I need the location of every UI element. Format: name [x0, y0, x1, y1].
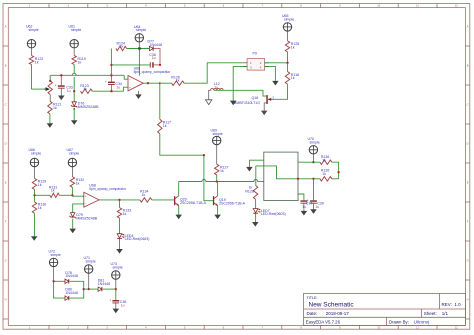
- wire R121 to ground: [49, 114, 51, 123]
- ground chevron under L12: [206, 100, 212, 105]
- svg-text:1k: 1k: [176, 79, 180, 83]
- transistor Q18 JFET: [233, 95, 274, 105]
- inductor L12: [211, 82, 223, 90]
- wire JFET source to ground: [264, 103, 266, 111]
- svg-text:8: 8: [300, 4, 302, 8]
- wire C39 to ground: [313, 203, 315, 209]
- wire R135 leads: [314, 178, 339, 180]
- title block text New Schematic: [309, 302, 355, 309]
- wire minus input drop: [124, 75, 128, 79]
- svg-text:1k: 1k: [35, 60, 39, 64]
- ground under C37: [301, 211, 308, 216]
- svg-text:simple: simple: [310, 140, 320, 144]
- transistor Q20: [174, 196, 207, 206]
- resistor R121: [48, 101, 62, 114]
- svg-text:−: −: [129, 78, 131, 82]
- svg-text:simple: simple: [113, 266, 123, 270]
- ground under C38: [113, 309, 120, 314]
- svg-text:simple: simple: [31, 151, 41, 155]
- svg-text:12: 12: [455, 4, 458, 8]
- node R131 left: [33, 194, 35, 196]
- wire R117 to Q19 node: [160, 134, 204, 156]
- svg-text:simple: simple: [69, 151, 79, 155]
- diode D78: [65, 271, 78, 284]
- wire C38 to ground: [115, 303, 117, 309]
- wire feedback rail to C36: [111, 64, 150, 66]
- svg-text:E: E: [467, 181, 469, 185]
- connector P9: [243, 52, 269, 71]
- wire R134 to Q20 base: [152, 199, 174, 201]
- svg-text:H: H: [5, 298, 7, 302]
- resistor R135: [320, 169, 332, 181]
- svg-text:R128: R128: [245, 189, 254, 193]
- resistor R133: [117, 208, 131, 218]
- svg-text:1k: 1k: [51, 189, 55, 193]
- wire C33 lead: [60, 75, 62, 85]
- svg-text:Drawn By:: Drawn By:: [389, 319, 409, 324]
- wire R119 to D76: [73, 91, 75, 102]
- diode D80: [65, 288, 78, 301]
- svg-text:TITLE:: TITLE:: [307, 296, 318, 300]
- svg-text:2SC2056-T1B-A: 2SC2056-T1B-A: [219, 202, 246, 206]
- svg-text:1k: 1k: [83, 87, 87, 91]
- svg-text:Date:: Date:: [307, 311, 318, 316]
- svg-text:simple: simple: [29, 28, 39, 32]
- resistor R118: [285, 72, 299, 85]
- voltage source U69: [211, 128, 223, 144]
- svg-text:MMSZ5248B: MMSZ5248B: [78, 105, 99, 109]
- svg-text:D: D: [5, 142, 7, 146]
- resistor R119: [72, 56, 86, 65]
- wire R128 to LED7: [255, 199, 257, 208]
- node R131 right: [71, 194, 73, 196]
- diode D77: [148, 40, 162, 51]
- wire ground spur left of module: [249, 160, 263, 167]
- wire L12 to JFET drain: [214, 90, 267, 96]
- wire D77 to C36: [154, 49, 160, 65]
- svg-text:UItronvj: UItronvj: [414, 319, 429, 324]
- ground under C33: [58, 96, 65, 101]
- node U71 junction: [88, 288, 90, 290]
- wire L12 left to ground: [209, 90, 211, 100]
- svg-text:simple: simple: [213, 132, 223, 136]
- svg-text:1: 1: [29, 4, 31, 8]
- wire R126 to P9 pin1: [184, 63, 243, 83]
- svg-text:1N4448: 1N4448: [65, 291, 77, 295]
- led LED4: [117, 234, 149, 242]
- svg-text:MMSZ5248B: MMSZ5248B: [76, 217, 97, 221]
- node C34 top on rail: [110, 74, 112, 76]
- node U64 junction: [138, 47, 140, 49]
- diode D81: [98, 279, 110, 292]
- ground under Q20: [175, 215, 182, 220]
- wire R135 node to C39: [313, 179, 315, 201]
- svg-text:simple: simple: [284, 17, 294, 21]
- wire R136 right: [332, 162, 339, 179]
- wire U67 to R119: [73, 48, 75, 56]
- resistor R127: [215, 164, 229, 175]
- svg-text:1N4448: 1N4448: [65, 274, 77, 278]
- svg-text:1k: 1k: [291, 46, 295, 50]
- ground under U66: [135, 94, 142, 99]
- wire Q20 collector: [178, 182, 180, 196]
- svg-text:1k: 1k: [142, 193, 146, 197]
- title block text REV 1.0: [442, 302, 462, 307]
- title block text Drawn By: [389, 319, 429, 324]
- wire R122 down: [31, 65, 33, 90]
- svg-text:P9: P9: [253, 52, 257, 56]
- svg-text:1k: 1k: [38, 183, 42, 187]
- resistor R125: [285, 41, 299, 52]
- capacitor C37: [297, 199, 312, 210]
- voltage source U66b: [29, 148, 42, 167]
- svg-text:simple: simple: [71, 28, 81, 32]
- ground under LED7: [252, 222, 258, 227]
- svg-text:1k: 1k: [38, 206, 42, 210]
- title block box: [304, 294, 466, 326]
- wire Q19 collector: [216, 182, 219, 196]
- wire R133 to LED4: [119, 218, 121, 234]
- svg-text:+: +: [85, 194, 87, 198]
- wire pot to R121: [49, 95, 51, 102]
- wire node to R133: [119, 200, 121, 208]
- svg-text:New Schematic: New Schematic: [309, 302, 355, 309]
- ground under R130: [31, 236, 38, 241]
- svg-text:3: 3: [106, 4, 108, 8]
- ground under C39: [310, 209, 317, 214]
- node R123 left junction: [73, 90, 75, 92]
- ground left of module: [246, 167, 253, 172]
- resistor R134: [140, 190, 152, 202]
- svg-text:B: B: [467, 64, 469, 68]
- svg-text:LED-Red(0603): LED-Red(0603): [261, 212, 286, 216]
- led LED7: [253, 209, 285, 217]
- wire R123 to opamp plus input: [92, 87, 128, 91]
- wire R132 to node: [71, 187, 73, 195]
- resistor R136: [320, 155, 332, 164]
- voltage source U67: [69, 25, 82, 48]
- node mid junction: [203, 154, 205, 156]
- svg-text:4: 4: [145, 4, 147, 8]
- svg-text:+: +: [297, 199, 299, 203]
- wire node to C38: [115, 289, 117, 300]
- svg-text:2SC2056-T1B-A: 2SC2056-T1B-A: [180, 201, 207, 205]
- svg-text:1N4448: 1N4448: [150, 43, 162, 47]
- node rail R127: [216, 180, 218, 182]
- wire inner route to R135: [256, 166, 314, 179]
- svg-text:G: G: [467, 259, 469, 263]
- svg-text:MMBFJ310LT1G: MMBFJ310LT1G: [233, 101, 260, 105]
- svg-text:1k: 1k: [291, 76, 295, 80]
- voltage source U62: [26, 25, 39, 48]
- node feedback mid: [110, 64, 112, 66]
- wire U68 minus input to D79: [73, 204, 84, 213]
- wire diode loop: [54, 281, 84, 298]
- wire LED7 to ground: [255, 214, 257, 223]
- resistor R130: [32, 202, 46, 213]
- wire U66b to R129: [34, 167, 36, 179]
- svg-text:5: 5: [184, 4, 186, 8]
- op-amp U68: [84, 183, 127, 207]
- svg-text:Q18: Q18: [252, 96, 259, 100]
- zener diode D76: [71, 102, 99, 109]
- resistor R124: [116, 41, 127, 50]
- potentiometer wiper arrow: [44, 87, 49, 91]
- svg-text:2: 2: [68, 4, 70, 8]
- potentiometer R120 element: [48, 81, 52, 95]
- node right vertical: [337, 171, 339, 173]
- svg-text:C: C: [5, 103, 7, 107]
- wire R130 to ground: [34, 213, 36, 236]
- wire to pot wiper: [32, 88, 45, 90]
- capacitor C38: [109, 298, 126, 307]
- wire U73 down: [115, 279, 117, 289]
- svg-text:1k: 1k: [76, 181, 80, 185]
- node pot top: [49, 80, 51, 82]
- svg-text:REV: 1.0: REV: 1.0: [442, 302, 462, 307]
- svg-text:3: 3: [272, 95, 274, 99]
- svg-text:1u: 1u: [116, 86, 120, 90]
- resistor R131: [49, 185, 59, 197]
- node loop right mid: [83, 288, 85, 290]
- wire U66 output: [143, 82, 171, 84]
- svg-text:F: F: [5, 220, 7, 224]
- svg-text:F: F: [467, 220, 469, 224]
- wire pot top stub: [49, 75, 51, 81]
- svg-text:1u: 1u: [315, 205, 319, 209]
- svg-text:G: G: [5, 259, 7, 263]
- svg-text:1N4448: 1N4448: [98, 282, 110, 286]
- svg-text:1k: 1k: [120, 45, 124, 49]
- node below D76: [73, 108, 75, 110]
- wire R125 to node: [287, 52, 289, 63]
- node diode loop left: [52, 280, 54, 282]
- svg-text:2018-09-17: 2018-09-17: [326, 311, 350, 316]
- node C33 junction: [60, 74, 62, 76]
- capacitor C34: [105, 80, 122, 90]
- wire Q19 emitter to ground: [217, 205, 219, 214]
- svg-text:simple: simple: [51, 253, 61, 257]
- wire P9 pin4 to ground: [265, 66, 276, 81]
- title block text TITLE: [307, 296, 318, 300]
- zener diode D79: [70, 213, 98, 221]
- wire R131 leads: [35, 194, 73, 196]
- wire U62 to R122: [31, 48, 33, 56]
- svg-text:E: E: [5, 181, 7, 185]
- svg-text:1u: 1u: [215, 85, 219, 89]
- wiring rectangle module: [264, 152, 298, 200]
- svg-text:6: 6: [223, 4, 225, 8]
- voltage source U64: [134, 25, 146, 42]
- ground under Q19: [214, 215, 221, 220]
- wire R119 down crossing rail: [73, 65, 75, 92]
- svg-text:simple: simple: [86, 260, 96, 264]
- wire P9 pin3 to ground: [233, 66, 247, 100]
- node U70 junction: [312, 161, 314, 163]
- ground under LED4: [116, 249, 123, 254]
- capacitor C33: [55, 84, 73, 93]
- wire R128 branch vertical: [255, 166, 257, 186]
- resistor R128: [245, 185, 257, 199]
- ground under P9 pin4: [272, 81, 279, 86]
- svg-text:1k: 1k: [53, 106, 57, 110]
- wire output branch vertical: [159, 82, 161, 119]
- resistor R132: [70, 177, 84, 188]
- voltage source U73: [111, 262, 123, 279]
- svg-text:9: 9: [339, 4, 341, 8]
- wire U64 node to opamp power: [138, 49, 140, 76]
- voltage source U70: [308, 137, 320, 154]
- wire node to R130: [34, 195, 36, 202]
- voltage source U67b: [67, 148, 80, 167]
- wire Q20 emitter to ground: [178, 205, 180, 214]
- ground under P9 pin3: [230, 101, 237, 106]
- wire LED4 to ground: [119, 239, 121, 249]
- svg-text:C37: C37: [306, 201, 313, 205]
- resistor R117: [158, 119, 171, 133]
- wire U68 output: [99, 199, 140, 201]
- voltage source U71: [84, 256, 96, 273]
- svg-text:LED-Red(0603): LED-Red(0603): [125, 237, 150, 241]
- svg-text:A: A: [467, 25, 469, 29]
- svg-text:1k: 1k: [78, 60, 82, 64]
- svg-text:+: +: [109, 298, 111, 302]
- svg-text:5pin_opamp_comparator: 5pin_opamp_comparator: [89, 187, 127, 191]
- svg-text:1k: 1k: [163, 124, 167, 128]
- voltage source U65: [282, 14, 294, 31]
- capacitor C39: [307, 199, 324, 210]
- ground under R121: [47, 123, 54, 128]
- title block text Date: [307, 311, 350, 316]
- svg-text:1/1: 1/1: [442, 311, 449, 316]
- wire loop to D81: [84, 288, 98, 290]
- wire R124 right to D77 node: [127, 48, 149, 50]
- svg-text:Sheet:: Sheet:: [424, 311, 437, 316]
- resistor R129: [32, 178, 46, 189]
- node U66 output: [147, 82, 149, 84]
- title block text Sheet: [424, 311, 449, 316]
- svg-text:−: −: [85, 202, 87, 206]
- resistor R122: [29, 56, 43, 65]
- wire U71 down: [88, 273, 90, 289]
- svg-text:1u: 1u: [67, 89, 71, 93]
- svg-text:1k: 1k: [322, 158, 326, 162]
- wire module to C37: [298, 194, 304, 200]
- wire hop on rail at R119: [72, 73, 76, 75]
- wire hop rail over Q19 base line: [202, 180, 206, 182]
- op-amp U66: [128, 66, 171, 91]
- transistor Q19: [213, 196, 246, 206]
- ground under D79: [69, 229, 76, 234]
- wire node to R118: [287, 63, 289, 72]
- svg-text:1k: 1k: [322, 172, 326, 176]
- node C38 top: [115, 288, 117, 290]
- svg-text:7: 7: [262, 4, 264, 8]
- wire C34 leads: [110, 75, 112, 91]
- wire U70 to R136 wire: [312, 154, 314, 162]
- wire C37 to ground: [303, 203, 305, 211]
- svg-text:1u: 1u: [152, 56, 156, 60]
- wire U64 lead: [138, 42, 140, 49]
- svg-text:1k: 1k: [220, 169, 224, 173]
- node R135 left: [312, 178, 314, 180]
- wire C33 to ground: [60, 88, 62, 95]
- wire module to R136: [298, 161, 320, 163]
- svg-text:10: 10: [377, 4, 380, 8]
- wire U72 down: [53, 267, 55, 282]
- node R133 top: [118, 199, 120, 201]
- svg-text:A: A: [5, 25, 7, 29]
- wire D81 to C38 node: [103, 288, 116, 290]
- wire D76 to ground: [73, 108, 75, 120]
- wire hop rail over R128 line: [254, 180, 258, 182]
- svg-text:1u: 1u: [121, 303, 125, 307]
- wire R118 to JFET gate: [271, 84, 287, 99]
- resistor R123: [80, 84, 92, 93]
- node C34 bottom: [110, 90, 112, 92]
- resistor R126: [171, 76, 184, 86]
- ground under D76: [71, 120, 78, 125]
- capacitor C36: [149, 53, 160, 68]
- svg-text:C: C: [467, 103, 469, 107]
- svg-text:simple: simple: [136, 28, 146, 32]
- svg-text:+: +: [129, 85, 131, 89]
- wire U65 to R125: [287, 31, 289, 41]
- wire node to U68 plus input: [72, 194, 83, 197]
- svg-text:+: +: [55, 84, 57, 88]
- wire U69 to R127: [216, 145, 218, 165]
- wire P9 pin2 to R125 node: [265, 62, 288, 64]
- title block text EasyEDA: [306, 319, 341, 324]
- wire feedback vertical: [110, 49, 112, 76]
- svg-text:B: B: [5, 64, 7, 68]
- wire U66 ground pin: [138, 91, 140, 95]
- node C36 right: [159, 64, 161, 66]
- svg-text:+: +: [105, 80, 107, 84]
- wire collector rail: [179, 181, 264, 183]
- wire D79 to ground: [72, 219, 74, 229]
- svg-text:5pin_opamp_comparator: 5pin_opamp_comparator: [134, 70, 172, 74]
- wire down to Q19 base: [204, 155, 213, 201]
- svg-text:H: H: [467, 298, 469, 302]
- wire U67b to R132: [71, 167, 73, 177]
- svg-text:EasyEDA V5.7.26: EasyEDA V5.7.26: [306, 319, 341, 324]
- ground under Q18: [261, 111, 268, 116]
- svg-text:11: 11: [416, 4, 419, 8]
- svg-text:1k: 1k: [123, 212, 127, 216]
- wire R129 to node: [34, 189, 36, 195]
- node module right edge: [297, 178, 299, 180]
- wire R127 to rail: [216, 175, 218, 182]
- node R125 R118 junction: [286, 62, 288, 64]
- wire rail top-left: [50, 74, 124, 76]
- voltage source U72: [49, 250, 61, 267]
- svg-text:D: D: [467, 142, 469, 146]
